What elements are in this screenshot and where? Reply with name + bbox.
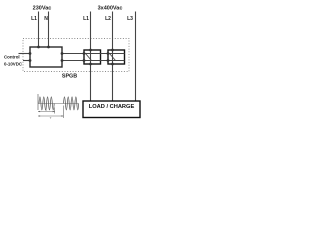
junction dots controller right	[61, 52, 64, 55]
svg-text:L3: L3	[127, 16, 133, 22]
svg-text:SPGB: SPGB	[62, 74, 77, 80]
waveform burst 1	[39, 97, 54, 110]
dimension tick T end	[63, 106, 65, 119]
svg-text:3x400Vac: 3x400Vac	[98, 5, 123, 11]
dimension line T (period)	[38, 115, 64, 117]
wire L1 230V drop	[38, 12, 40, 48]
dimension tick t end	[54, 108, 56, 114]
wire control top	[19, 53, 31, 55]
waveform zero line	[38, 103, 79, 105]
wire bus bottom	[62, 60, 125, 62]
svg-text:Control: Control	[4, 54, 20, 59]
junction dots controller left	[29, 52, 32, 55]
svg-text:230Vac: 230Vac	[33, 5, 52, 11]
dimension line t (on-time)	[38, 111, 55, 113]
load box	[83, 101, 140, 118]
wire N 230V drop	[48, 12, 50, 48]
svg-text:L2: L2	[105, 16, 111, 22]
junction dots switch box2	[107, 52, 110, 55]
wire bus top (controller to switch boxes)	[62, 53, 125, 55]
wire phase L3 vertical	[135, 12, 137, 102]
switch diagonal 1	[86, 54, 92, 61]
junction dots switch box1	[83, 52, 86, 55]
svg-text:T: T	[50, 116, 52, 120]
wire phase L1 vertical	[90, 12, 92, 102]
background	[0, 0, 150, 128]
controller box	[30, 47, 62, 67]
svg-text:L1: L1	[83, 16, 89, 22]
switch diagonal 2	[110, 54, 116, 61]
waveform burst 2	[64, 97, 79, 110]
switch box 1	[84, 50, 101, 64]
wire control bottom	[23, 60, 30, 62]
switch box 2	[108, 50, 125, 64]
svg-text:L1: L1	[31, 16, 37, 22]
junction dots controller top	[37, 46, 40, 49]
svg-text:LOAD / CHARGE: LOAD / CHARGE	[89, 104, 135, 110]
dashed enclosure SPGB	[23, 39, 129, 72]
svg-text:N: N	[44, 16, 48, 22]
svg-text:0-10VDC: 0-10VDC	[4, 61, 23, 66]
waveform axis	[37, 94, 39, 110]
wire phase L2 vertical	[112, 12, 114, 102]
